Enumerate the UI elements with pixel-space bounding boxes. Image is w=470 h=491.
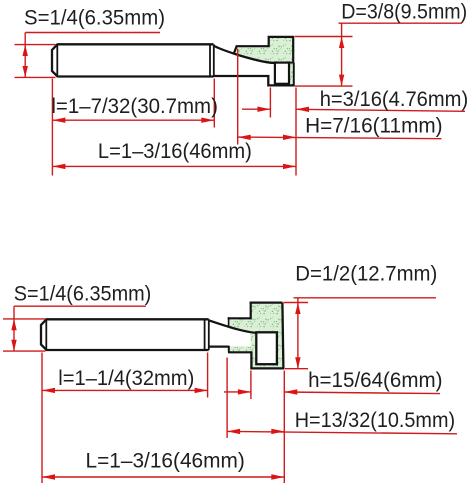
dim D leader bit2 — [294, 297, 437, 299]
arrow S up bit2 — [11, 319, 16, 330]
arrow D up bit2 — [295, 303, 300, 314]
dim l ext left bit2 — [41, 353, 43, 484]
arrow l left bit2 — [42, 388, 55, 393]
svg-text:h=3/16(4.76mm): h=3/16(4.76mm) — [320, 87, 469, 111]
svg-text:H=13/32(10.5mm): H=13/32(10.5mm) — [295, 408, 455, 432]
dim l ext right bit2 — [207, 353, 209, 398]
head left lower edge bit2 — [250, 351, 252, 368]
svg-text:l=1–7/32(30.7mm): l=1–7/32(30.7mm) — [51, 94, 218, 118]
svg-text:S=1/4(6.35mm): S=1/4(6.35mm) — [14, 282, 152, 306]
arrow L right bit1 — [283, 164, 296, 169]
arrow H right bit2 — [271, 429, 284, 434]
arrow L left bit2 — [42, 474, 55, 479]
dim S ext bottom bit1 — [15, 76, 56, 78]
flute curve bit1 — [214, 45, 277, 63]
dim D ext bottom bit2 — [285, 368, 309, 370]
dim h ext left bit2 — [250, 371, 252, 400]
dim S line bit1 — [24, 33, 26, 78]
arrow D up bit1 — [339, 37, 344, 48]
arrow L right bit2 — [271, 474, 284, 479]
svg-text:D=3/8(9.5mm): D=3/8(9.5mm) — [341, 0, 467, 24]
dim D line bit2 — [297, 298, 299, 369]
arrow l left bit1 — [52, 118, 65, 123]
carbide strip right of slot bit1 — [289, 64, 293, 85]
shank end cap inner bit2 — [204, 319, 206, 350]
dim h ext left bit1 — [269, 88, 271, 118]
arrow D down bit2 — [295, 357, 300, 368]
arrow h left-seg2 bit2 — [284, 389, 297, 394]
shank end cap outer bit2 — [208, 319, 210, 350]
dim l ext right bit1 — [213, 79, 215, 128]
head block green bit2 — [251, 303, 284, 369]
arrow S down bit1 — [23, 66, 28, 77]
arrow H left bit2 — [227, 429, 240, 434]
svg-text:L=1–3/16(46mm): L=1–3/16(46mm) — [98, 139, 252, 163]
head step vertical bit2 — [250, 302, 252, 320]
shank end cap inner bit1 — [209, 44, 211, 76]
dim h ext right bit1 — [295, 88, 297, 176]
neck wedge green bit2 — [229, 318, 251, 332]
dim D ext bottom bit1 — [295, 85, 353, 87]
head right face bit2 — [282, 303, 283, 369]
arrow h left-seg2 bit1 — [296, 107, 309, 112]
dim D leader bit1 — [339, 22, 463, 24]
head bottom edge bit2 — [250, 367, 284, 369]
dim h line left seg bit1 — [242, 108, 270, 110]
arrow H left bit1 — [238, 135, 251, 140]
dim h line left seg bit2 — [224, 391, 251, 393]
shank end cap outer bit1 — [213, 44, 215, 76]
dim H line bit2 — [227, 431, 457, 433]
arrow L left bit1 — [52, 164, 65, 169]
svg-text:H=7/16(11mm): H=7/16(11mm) — [305, 114, 443, 138]
dim D line bit1 — [341, 23, 343, 86]
shank left chamfer crease bit2 — [45, 320, 47, 350]
carbide wedge bit1 — [234, 37, 293, 63]
arrow h right-seg1 bit2 — [238, 389, 251, 394]
svg-text:S=1/4(6.35mm): S=1/4(6.35mm) — [24, 6, 165, 30]
dim D ext top bit2 — [284, 302, 309, 304]
neckline lower bit2 — [228, 351, 251, 353]
arrow S up bit1 — [23, 45, 28, 56]
dim H ext left bit2 — [226, 358, 228, 439]
dim D ext top bit1 — [295, 36, 353, 38]
neck wedge left edge bit2 — [228, 317, 230, 327]
shank body bit2 — [41, 319, 209, 350]
arrow S down bit2 — [11, 340, 16, 351]
arrow H right bit1 — [283, 135, 296, 140]
dim S ext bottom bit2 — [3, 350, 46, 352]
under-neck strip green bit2 — [229, 346, 253, 351]
arrow l right bit1 — [201, 118, 214, 123]
dim h line right seg bit2 — [284, 392, 440, 394]
slot rectangle bit2 — [256, 332, 277, 364]
neck jog vertical bit2 — [228, 346, 230, 353]
arrow D down bit1 — [339, 75, 344, 86]
dim H ext left bit1 — [237, 49, 239, 145]
dim S line bit2 — [13, 306, 15, 351]
dim h ext right bit2 — [283, 371, 285, 484]
flute curve bit2 — [209, 320, 260, 333]
dim H line bit1 — [238, 137, 442, 139]
dim L line bit1 — [52, 165, 296, 167]
dim L line bit2 — [42, 476, 284, 478]
dim S ext top bit1 — [15, 44, 56, 46]
dim S leader bit1 — [25, 32, 160, 34]
dim h line right seg bit1 — [296, 109, 465, 111]
neck bottom and lower flange bit1 — [214, 63, 294, 86]
shank body bit1 — [52, 44, 214, 76]
svg-text:L=1–3/16(46mm): L=1–3/16(46mm) — [86, 448, 245, 472]
dim S ext top bit2 — [3, 318, 46, 320]
head top edge bit2 — [250, 301, 283, 303]
arrow l right bit2 — [195, 388, 208, 393]
svg-text:h=15/64(6mm): h=15/64(6mm) — [308, 368, 442, 392]
slot rectangle bit1 — [275, 63, 289, 84]
svg-text:D=1/2(12.7mm): D=1/2(12.7mm) — [295, 262, 437, 286]
arrow h right-seg1 bit1 — [257, 107, 270, 112]
neck top edge bit2 — [228, 317, 251, 319]
shank left chamfer crease bit1 — [56, 45, 58, 76]
dim l line bit2 — [42, 389, 208, 391]
svg-text:l=1–1/4(32mm): l=1–1/4(32mm) — [58, 366, 194, 390]
dim l ext left bit1 — [51, 79, 53, 176]
dim l line bit1 — [52, 119, 214, 121]
dim S leader bit2 — [14, 305, 146, 307]
neckline upper bit2 — [208, 346, 229, 348]
